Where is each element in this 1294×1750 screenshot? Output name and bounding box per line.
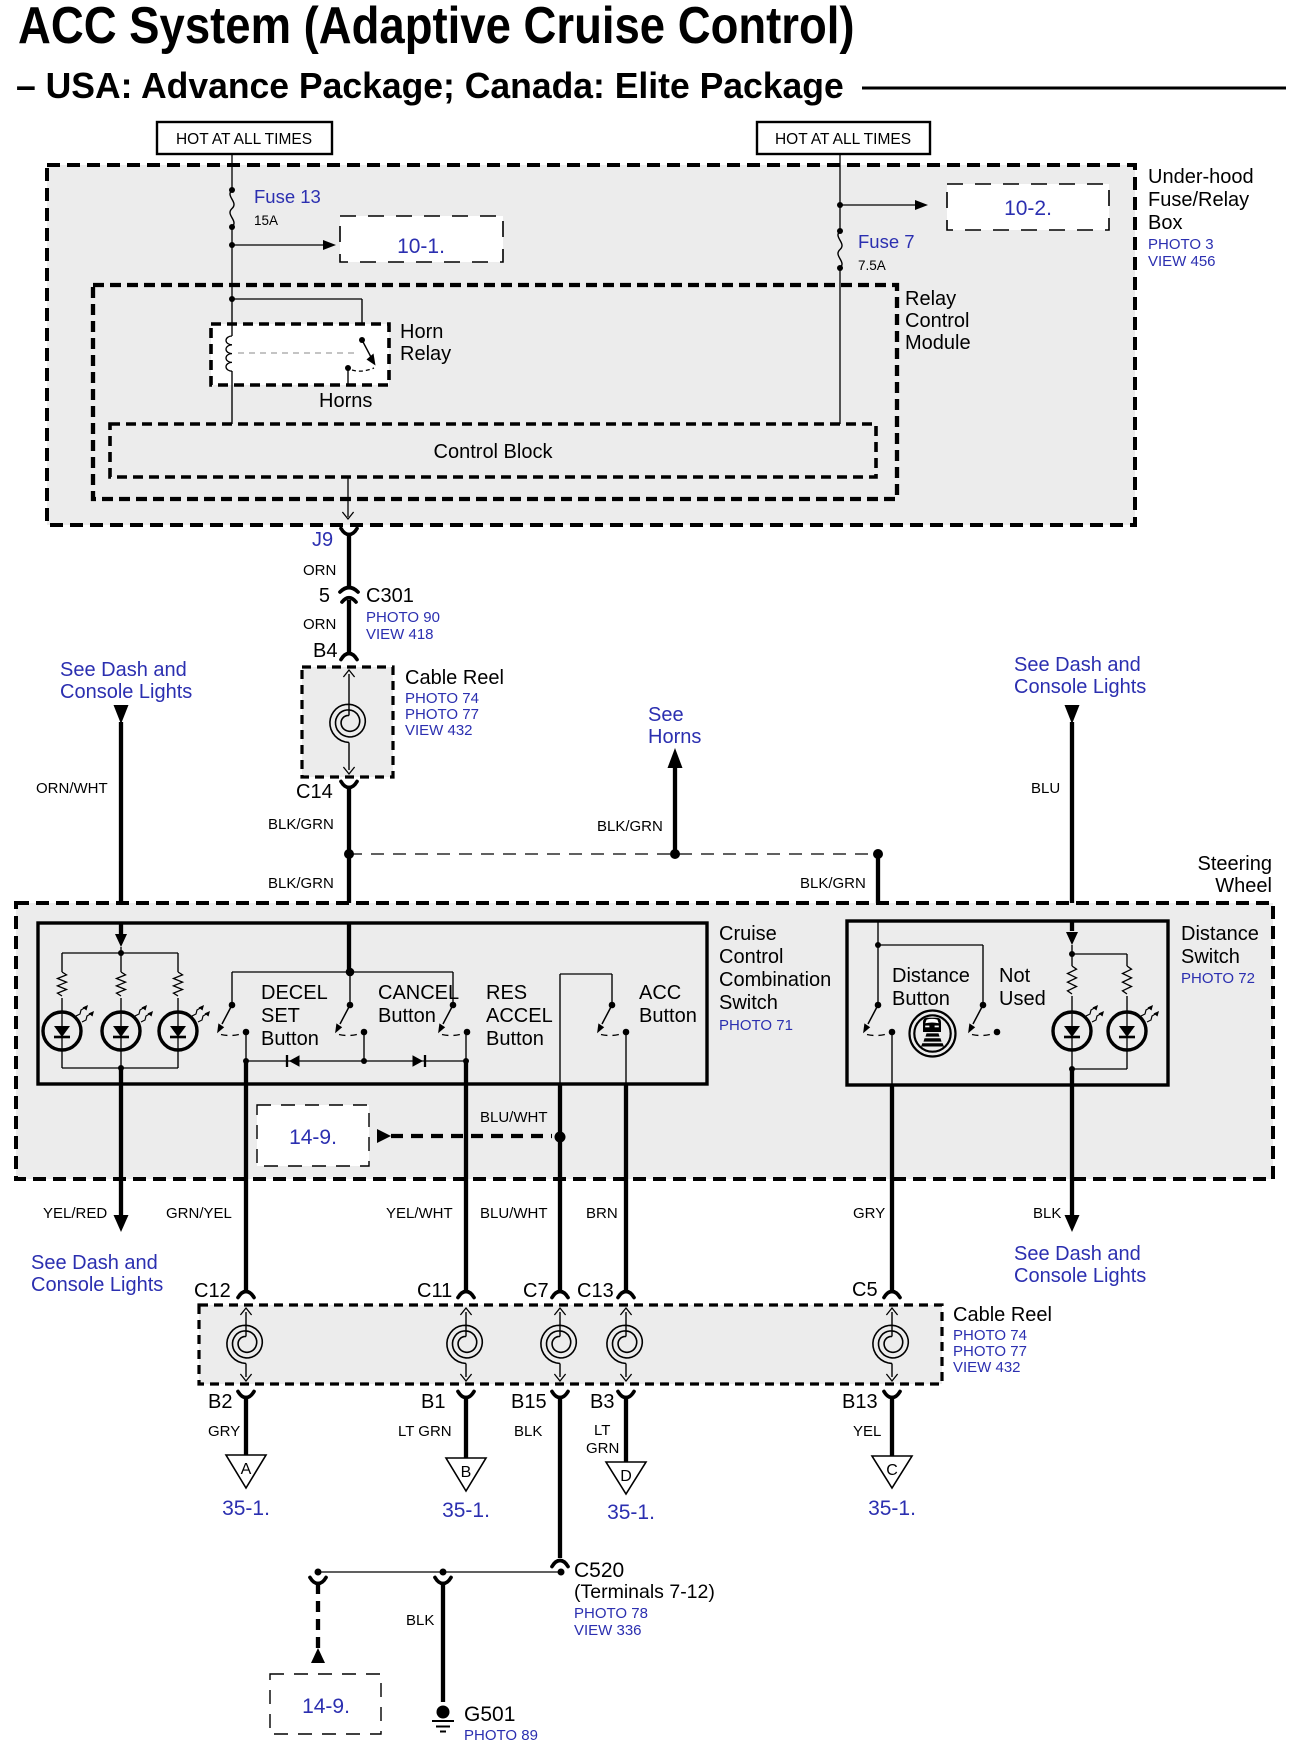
svg-text:C7: C7 bbox=[523, 1280, 549, 1302]
node diode rail left bbox=[243, 1058, 249, 1064]
cable reel (upper) bbox=[302, 667, 393, 777]
connector triangle C bbox=[872, 1456, 912, 1488]
svg-text:Fuse 13: Fuse 13 bbox=[254, 186, 321, 207]
svg-text:Not: Not bbox=[999, 965, 1031, 987]
node illumination bottom bbox=[118, 1065, 124, 1071]
cable reel channel at x=466 bbox=[465, 1312, 467, 1337]
svg-text:See Dash and: See Dash and bbox=[1014, 654, 1141, 676]
wire BLK out (to dash lights) bbox=[1070, 1069, 1074, 1218]
svg-text:Distance: Distance bbox=[1181, 923, 1259, 945]
horn relay link (dashed) bbox=[238, 352, 354, 354]
wire C301 to B4 (ORN) bbox=[347, 600, 351, 653]
svg-text:YEL/WHT: YEL/WHT bbox=[386, 1205, 453, 1222]
svg-text:Control: Control bbox=[719, 946, 783, 968]
svg-text:– USA: Advance Package; Canada: – USA: Advance Package; Canada: Elite Pa… bbox=[16, 66, 844, 106]
wire fuse13 to junction bbox=[231, 227, 233, 299]
wire LT GRN to B bbox=[464, 1397, 468, 1458]
svg-text:ACCEL: ACCEL bbox=[486, 1005, 553, 1027]
under-hood fuse/relay box bbox=[47, 165, 1135, 525]
diode rail bbox=[246, 1060, 466, 1062]
svg-text:5: 5 bbox=[319, 585, 330, 607]
hot-at-all-times box 2 bbox=[757, 122, 930, 154]
wire GRN/YEL to C12 bbox=[244, 1061, 248, 1290]
wire junction to distance switch (BLK/GRN) bbox=[876, 854, 880, 921]
node C520 mid bbox=[440, 1569, 447, 1576]
relay control module box bbox=[93, 285, 897, 499]
wire lamp rail top bbox=[62, 952, 178, 954]
svg-text:7.5A: 7.5A bbox=[858, 258, 886, 273]
svg-text:PHOTO 78: PHOTO 78 bbox=[574, 1605, 648, 1622]
svg-text:Relay: Relay bbox=[400, 343, 451, 365]
node junction 10-2 bbox=[837, 202, 843, 208]
wire GRY to A bbox=[244, 1397, 248, 1455]
node BLU/WHT junction bbox=[555, 1132, 566, 1143]
resistor R2 bbox=[117, 972, 126, 996]
svg-text:A: A bbox=[241, 1461, 252, 1478]
svg-text:Console Lights: Console Lights bbox=[31, 1274, 163, 1296]
svg-text:BLK/GRN: BLK/GRN bbox=[268, 875, 334, 892]
wire BRN to C13 bbox=[624, 1084, 628, 1290]
wire YEL/WHT to C11 bbox=[464, 1061, 468, 1290]
node fuse13 bottom bbox=[229, 224, 235, 230]
svg-text:BLU/WHT: BLU/WHT bbox=[480, 1205, 548, 1222]
wire BLU from dash lights bbox=[1065, 705, 1080, 724]
svg-text:GRY: GRY bbox=[853, 1205, 885, 1222]
svg-text:YEL/RED: YEL/RED bbox=[43, 1205, 107, 1222]
svg-text:14-9.: 14-9. bbox=[289, 1126, 337, 1149]
svg-text:14-9.: 14-9. bbox=[302, 1695, 350, 1718]
svg-text:G501: G501 bbox=[464, 1703, 515, 1726]
wire res/accel to diode rail bbox=[465, 1032, 467, 1061]
node illumination top bbox=[118, 950, 124, 956]
node fuse13 top bbox=[229, 187, 235, 193]
wire C520 rail bbox=[318, 1571, 561, 1573]
svg-text:ORN: ORN bbox=[303, 562, 336, 579]
node BLK/GRN junction bbox=[344, 849, 354, 859]
svg-text:VIEW 336: VIEW 336 bbox=[574, 1622, 642, 1639]
svg-text:B3: B3 bbox=[590, 1391, 614, 1413]
cable reel channel at x=626 bbox=[625, 1312, 627, 1337]
wire decel to diode rail bbox=[245, 1032, 247, 1061]
wire BLK to C520 bbox=[558, 1397, 562, 1558]
cable reel channel at x=246 bbox=[245, 1312, 247, 1337]
svg-text:B: B bbox=[461, 1464, 472, 1481]
svg-text:See Dash and: See Dash and bbox=[1014, 1243, 1141, 1265]
svg-text:Console Lights: Console Lights bbox=[1014, 1265, 1146, 1287]
node distance branch bbox=[875, 942, 881, 948]
fuse F13 bbox=[230, 190, 234, 227]
svg-text:See Dash and: See Dash and bbox=[31, 1252, 158, 1274]
LED lamp 1 bbox=[43, 1012, 81, 1050]
LED lamp 2 bbox=[102, 1012, 140, 1050]
diode D1 (left) bbox=[289, 1055, 300, 1066]
svg-text:C11: C11 bbox=[417, 1280, 452, 1302]
svg-text:Fuse 7: Fuse 7 bbox=[858, 231, 915, 252]
svg-text:HOT AT ALL TIMES: HOT AT ALL TIMES bbox=[775, 131, 911, 148]
wire arrow to 10-2 bbox=[840, 204, 916, 206]
wire switch rail bbox=[232, 971, 453, 973]
node switch rail junction bbox=[346, 968, 355, 977]
svg-text:PHOTO 3: PHOTO 3 bbox=[1148, 236, 1214, 253]
distance button icon bbox=[910, 1011, 956, 1057]
svg-text:YEL: YEL bbox=[853, 1423, 881, 1440]
svg-text:Steering: Steering bbox=[1198, 853, 1273, 875]
svg-text:BLK: BLK bbox=[1033, 1205, 1061, 1222]
svg-text:VIEW 432: VIEW 432 bbox=[953, 1359, 1021, 1376]
cruise control combination switch box bbox=[38, 923, 707, 1084]
fuse F7 bbox=[838, 231, 842, 268]
resistor R3 bbox=[174, 972, 183, 996]
wire YEL to C bbox=[890, 1397, 894, 1456]
svg-text:B13: B13 bbox=[842, 1391, 878, 1413]
node horn relay branch bbox=[229, 296, 235, 302]
node distance lamp bottom bbox=[1069, 1066, 1075, 1072]
svg-text:Module: Module bbox=[905, 332, 971, 354]
svg-text:PHOTO 74: PHOTO 74 bbox=[953, 1327, 1027, 1344]
wire lamp return (YEL/RED) bbox=[119, 1068, 123, 1218]
node diode rail mid bbox=[361, 1058, 367, 1064]
svg-text:CANCEL: CANCEL bbox=[378, 982, 459, 1004]
node see-horns junction bbox=[670, 849, 680, 859]
switch ACC bbox=[609, 1002, 616, 1009]
svg-text:Distance: Distance bbox=[892, 965, 970, 987]
svg-text:GRN/YEL: GRN/YEL bbox=[166, 1205, 232, 1222]
svg-text:Under-hood: Under-hood bbox=[1148, 166, 1254, 188]
node C520 left bbox=[315, 1569, 322, 1576]
horn relay switch bbox=[359, 337, 365, 343]
svg-text:C13: C13 bbox=[577, 1280, 614, 1302]
wire ORN/WHT from dash lights bbox=[114, 705, 129, 724]
cable reel channel at x=892 bbox=[891, 1312, 893, 1337]
svg-text:See Dash and: See Dash and bbox=[60, 659, 187, 681]
svg-text:Button: Button bbox=[639, 1005, 697, 1027]
reference box 14-9 (lower) bbox=[270, 1674, 381, 1734]
svg-text:ORN/WHT: ORN/WHT bbox=[36, 780, 108, 797]
wire BLK/GRN into switches bbox=[347, 923, 351, 972]
wire BLU into distance lamps bbox=[1070, 921, 1074, 931]
svg-text:C: C bbox=[886, 1462, 898, 1479]
svg-text:ORN: ORN bbox=[303, 616, 336, 633]
svg-text:Horn: Horn bbox=[400, 321, 443, 343]
wire control block to J9 bbox=[347, 477, 349, 517]
svg-text:ACC: ACC bbox=[639, 982, 681, 1004]
horn relay coil bbox=[231, 299, 233, 336]
cable reel (lower) bbox=[199, 1305, 942, 1384]
svg-text:See: See bbox=[648, 704, 684, 726]
switch DECEL SET bbox=[229, 1002, 236, 1009]
svg-text:(Terminals 7-12): (Terminals 7-12) bbox=[574, 1581, 715, 1603]
svg-text:Button: Button bbox=[486, 1028, 544, 1050]
svg-text:Used: Used bbox=[999, 988, 1046, 1010]
svg-text:BLK: BLK bbox=[406, 1612, 434, 1629]
wire C14 down (BLK/GRN) bbox=[347, 787, 351, 903]
resistor R1 bbox=[58, 972, 67, 996]
svg-text:Cable Reel: Cable Reel bbox=[953, 1304, 1052, 1326]
svg-text:35-1.: 35-1. bbox=[868, 1497, 916, 1520]
wire distance lower contact to C5 (GRY) bbox=[891, 1032, 893, 1085]
svg-text:SET: SET bbox=[261, 1005, 300, 1027]
svg-text:Horns: Horns bbox=[648, 726, 701, 748]
svg-text:35-1.: 35-1. bbox=[442, 1499, 490, 1522]
reference box 10-1 bbox=[340, 216, 503, 262]
svg-text:BLK/GRN: BLK/GRN bbox=[597, 818, 663, 835]
svg-text:VIEW 432: VIEW 432 bbox=[405, 722, 473, 739]
svg-text:RES: RES bbox=[486, 982, 527, 1004]
dashed net line to distance switch bbox=[349, 853, 878, 855]
switch RES/ACCEL bbox=[450, 1002, 457, 1009]
wire from hot2 down bbox=[839, 154, 841, 231]
switch CANCEL bbox=[347, 1002, 354, 1009]
switch not used bbox=[980, 1002, 987, 1009]
wire ACC branch bbox=[559, 974, 561, 1084]
wire distance lamp bottom rail bbox=[1072, 1068, 1127, 1070]
reference box 10-2 bbox=[947, 184, 1109, 230]
svg-text:B4: B4 bbox=[313, 640, 337, 662]
svg-text:Control: Control bbox=[905, 310, 969, 332]
svg-text:BLK/GRN: BLK/GRN bbox=[268, 816, 334, 833]
diode D2 (right) bbox=[413, 1055, 424, 1066]
svg-text:VIEW 456: VIEW 456 bbox=[1148, 253, 1216, 270]
svg-text:BLU: BLU bbox=[1031, 780, 1060, 797]
svg-text:PHOTO 89: PHOTO 89 bbox=[464, 1727, 538, 1744]
node distance branch junction bbox=[873, 849, 883, 859]
wire BLU/WHT to C7 bbox=[558, 1084, 562, 1290]
svg-text:Button: Button bbox=[378, 1005, 436, 1027]
svg-text:PHOTO 77: PHOTO 77 bbox=[953, 1343, 1027, 1360]
wire cancel to diode rail bbox=[363, 1032, 365, 1061]
svg-text:BLK: BLK bbox=[514, 1423, 542, 1440]
LED lamp 5 bbox=[1108, 1012, 1146, 1050]
svg-text:Cable Reel: Cable Reel bbox=[405, 667, 504, 689]
svg-text:HOT AT ALL TIMES: HOT AT ALL TIMES bbox=[176, 131, 312, 148]
svg-text:Console Lights: Console Lights bbox=[1014, 676, 1146, 698]
svg-text:GRN: GRN bbox=[586, 1440, 619, 1457]
svg-text:C14: C14 bbox=[296, 781, 333, 803]
svg-text:Relay: Relay bbox=[905, 288, 956, 310]
wire LT GRN to D bbox=[624, 1397, 628, 1462]
wire BLK to G501 bbox=[441, 1583, 445, 1702]
horn relay box bbox=[211, 324, 389, 385]
resistor R4 bbox=[1068, 966, 1077, 994]
svg-text:Switch: Switch bbox=[1181, 946, 1240, 968]
svg-text:D: D bbox=[620, 1468, 632, 1485]
title rule line bbox=[862, 87, 1286, 90]
svg-text:C301: C301 bbox=[366, 585, 414, 607]
wire fuse7 to control block bbox=[839, 268, 841, 424]
node junction 10-1 bbox=[229, 242, 235, 248]
svg-text:Box: Box bbox=[1148, 212, 1182, 234]
wire to horn relay switch bbox=[232, 298, 362, 300]
svg-text:Button: Button bbox=[892, 988, 950, 1010]
svg-text:Wheel: Wheel bbox=[1215, 875, 1272, 897]
wire arrow to 10-1 bbox=[232, 244, 324, 246]
ground G501 bbox=[437, 1706, 450, 1719]
svg-text:PHOTO 90: PHOTO 90 bbox=[366, 609, 440, 626]
connector triangle B bbox=[446, 1458, 486, 1491]
node fuse7 top bbox=[837, 228, 843, 234]
svg-text:10-2.: 10-2. bbox=[1004, 197, 1052, 220]
svg-text:Cruise: Cruise bbox=[719, 923, 777, 945]
steering wheel box bbox=[16, 903, 1273, 1179]
svg-text:J9: J9 bbox=[312, 529, 333, 551]
svg-text:Switch: Switch bbox=[719, 992, 778, 1014]
node fuse7 bottom bbox=[837, 265, 843, 271]
svg-text:Horns: Horns bbox=[319, 390, 372, 412]
svg-text:C5: C5 bbox=[852, 1279, 878, 1301]
svg-text:35-1.: 35-1. bbox=[222, 1497, 270, 1520]
dashed wire from 14-9 to BLU/WHT bbox=[377, 1129, 391, 1143]
svg-text:Fuse/Relay: Fuse/Relay bbox=[1148, 189, 1249, 211]
see horns arrow bbox=[673, 762, 677, 854]
connector to 14-9 bbox=[310, 1578, 326, 1584]
svg-text:BLK/GRN: BLK/GRN bbox=[800, 875, 866, 892]
resistor R5 bbox=[1123, 966, 1132, 994]
wire lamp rail bottom bbox=[61, 1050, 63, 1068]
svg-text:PHOTO 72: PHOTO 72 bbox=[1181, 970, 1255, 987]
svg-text:10-1.: 10-1. bbox=[397, 235, 445, 258]
svg-text:BLU/WHT: BLU/WHT bbox=[480, 1109, 548, 1126]
svg-text:C12: C12 bbox=[194, 1280, 231, 1302]
svg-text:Control Block: Control Block bbox=[434, 441, 554, 463]
svg-text:ACC System (Adaptive Cruise Co: ACC System (Adaptive Cruise Control) bbox=[18, 0, 855, 55]
svg-text:B1: B1 bbox=[421, 1391, 445, 1413]
wire J9 to C301 (ORN) bbox=[347, 534, 351, 588]
svg-text:C520: C520 bbox=[574, 1559, 624, 1582]
node diode rail right bbox=[463, 1058, 469, 1064]
svg-text:DECEL: DECEL bbox=[261, 982, 328, 1004]
svg-text:VIEW 418: VIEW 418 bbox=[366, 626, 434, 643]
node distance lamp top bbox=[1069, 951, 1075, 957]
svg-text:PHOTO 77: PHOTO 77 bbox=[405, 706, 479, 723]
svg-text:Combination: Combination bbox=[719, 969, 831, 991]
svg-text:15A: 15A bbox=[254, 213, 278, 228]
connector to ground bbox=[435, 1578, 451, 1584]
connector C520 bbox=[552, 1561, 568, 1567]
LED lamp 4 bbox=[1053, 1012, 1091, 1050]
svg-text:PHOTO 74: PHOTO 74 bbox=[405, 690, 479, 707]
svg-text:B15: B15 bbox=[511, 1391, 547, 1413]
svg-text:PHOTO 71: PHOTO 71 bbox=[719, 1017, 793, 1034]
svg-text:LT GRN: LT GRN bbox=[398, 1423, 452, 1440]
illumination feed arrowhead bbox=[119, 923, 123, 935]
cable reel channel at x=560 bbox=[559, 1312, 561, 1337]
svg-text:LT: LT bbox=[594, 1422, 610, 1439]
wire from hot1 to fuse 13 bbox=[231, 154, 233, 190]
dashed wire to 14-9 bbox=[316, 1583, 320, 1648]
svg-text:BRN: BRN bbox=[586, 1205, 618, 1222]
distance switch box bbox=[847, 921, 1168, 1085]
svg-text:B2: B2 bbox=[208, 1391, 232, 1413]
svg-text:35-1.: 35-1. bbox=[607, 1501, 655, 1524]
wire acc lower contact down bbox=[625, 1032, 627, 1084]
wire to horns bbox=[347, 368, 349, 385]
connector triangle D bbox=[606, 1462, 646, 1494]
svg-text:Button: Button bbox=[261, 1028, 319, 1050]
control block bbox=[110, 424, 876, 477]
LED lamp 3 bbox=[159, 1012, 197, 1050]
svg-text:GRY: GRY bbox=[208, 1423, 240, 1440]
svg-text:Console Lights: Console Lights bbox=[60, 681, 192, 703]
hot-at-all-times box 1 bbox=[157, 122, 332, 154]
connector triangle A bbox=[226, 1455, 266, 1488]
switch distance button bbox=[875, 1002, 882, 1009]
wire into distance button bbox=[877, 921, 879, 945]
reference box 14-9 (upper) bbox=[257, 1105, 369, 1166]
